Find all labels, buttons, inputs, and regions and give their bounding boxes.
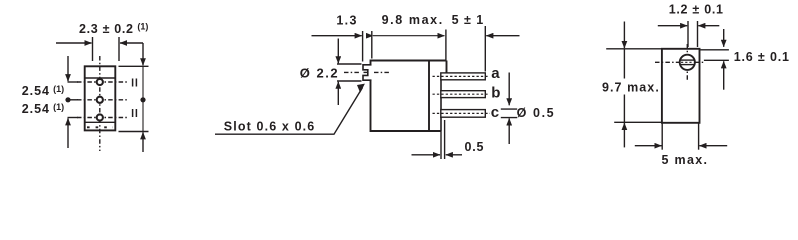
svg-text:9.7 max.: 9.7 max. [602,81,659,95]
svg-text:9.8 max.: 9.8 max. [382,13,443,27]
svg-text:b: b [491,84,500,101]
svg-text:5 max.: 5 max. [662,153,708,167]
svg-text:(1): (1) [53,84,64,94]
svg-text:c: c [491,104,499,121]
svg-text:a: a [491,65,500,82]
svg-text:Ø 0.5: Ø 0.5 [517,106,554,120]
svg-text:Ø 2.2: Ø 2.2 [300,66,338,81]
svg-text:5 ± 1: 5 ± 1 [452,13,484,27]
svg-text:(1): (1) [137,22,148,32]
svg-text:0.5: 0.5 [465,140,484,154]
svg-text:1.3: 1.3 [336,13,356,27]
svg-text:2.54: 2.54 [22,84,49,98]
svg-text:(1): (1) [53,102,64,112]
svg-text:2.3 ± 0.2: 2.3 ± 0.2 [79,22,133,36]
svg-text:1.2 ± 0.1: 1.2 ± 0.1 [669,3,723,17]
svg-text:Slot 0.6 x 0.6: Slot 0.6 x 0.6 [224,120,314,134]
svg-text:2.54: 2.54 [22,102,49,116]
svg-text:1.6 ± 0.1: 1.6 ± 0.1 [734,50,789,64]
